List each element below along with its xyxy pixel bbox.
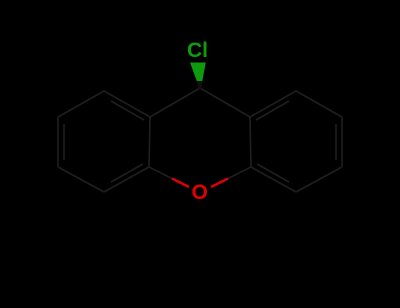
bond C5-C5a (right ring lower-left diagonal) — [251, 167, 296, 192]
bond C9a-C4a (left fused edge) — [149, 117, 150, 167]
bond C9a-C1 (left ring upper diagonal) — [104, 91, 150, 117]
bond C4-C4a (left ring lower-right diagonal) — [104, 167, 149, 192]
bond C9-C8a (right upper diagonal of central ring) — [200, 88, 250, 117]
bond C4a-O oxygen half (red) — [172, 179, 189, 188]
bond C2-C3 (left ring far-left vertical) — [57, 117, 59, 167]
svg-text:O: O — [192, 181, 208, 204]
bond C8a-C5a (right fused edge) — [250, 117, 251, 167]
bond C5a-O carbon half (dark) — [228, 167, 251, 179]
bond C7-C6 (right ring far-right vertical) — [341, 117, 343, 167]
bond C1-C2 (left ring upper-left diagonal) — [58, 91, 104, 117]
double bond inner line C9a-C1 — [111, 101, 144, 120]
double bond inner line C8a-C8 — [256, 101, 289, 120]
wedge bond C9-Cl green half — [190, 63, 206, 82]
bond C6-C5 (right ring lower-right diagonal) — [296, 167, 342, 192]
bond C4a-O carbon half (dark) — [149, 167, 172, 179]
bond C3-C4 (left ring lower-left diagonal) — [58, 167, 104, 192]
double bond inner line C2-C3 — [63, 124, 65, 160]
bond C8-C7 (right ring upper-right diagonal) — [296, 91, 342, 117]
wedge bond C9-Cl carbon half (dark) — [197, 81, 203, 90]
double bond inner line C4-C4a — [111, 164, 143, 182]
double bond inner line C7-C6 — [335, 124, 337, 160]
bond C5a-O oxygen half (red) — [211, 179, 228, 188]
bond C8a-C8 (right ring upper diagonal) — [250, 91, 296, 117]
svg-text:Cl: Cl — [187, 39, 208, 62]
bond C9-C9a (left upper diagonal of central ring) — [150, 88, 200, 117]
double bond inner line C5-C5a — [257, 164, 289, 182]
